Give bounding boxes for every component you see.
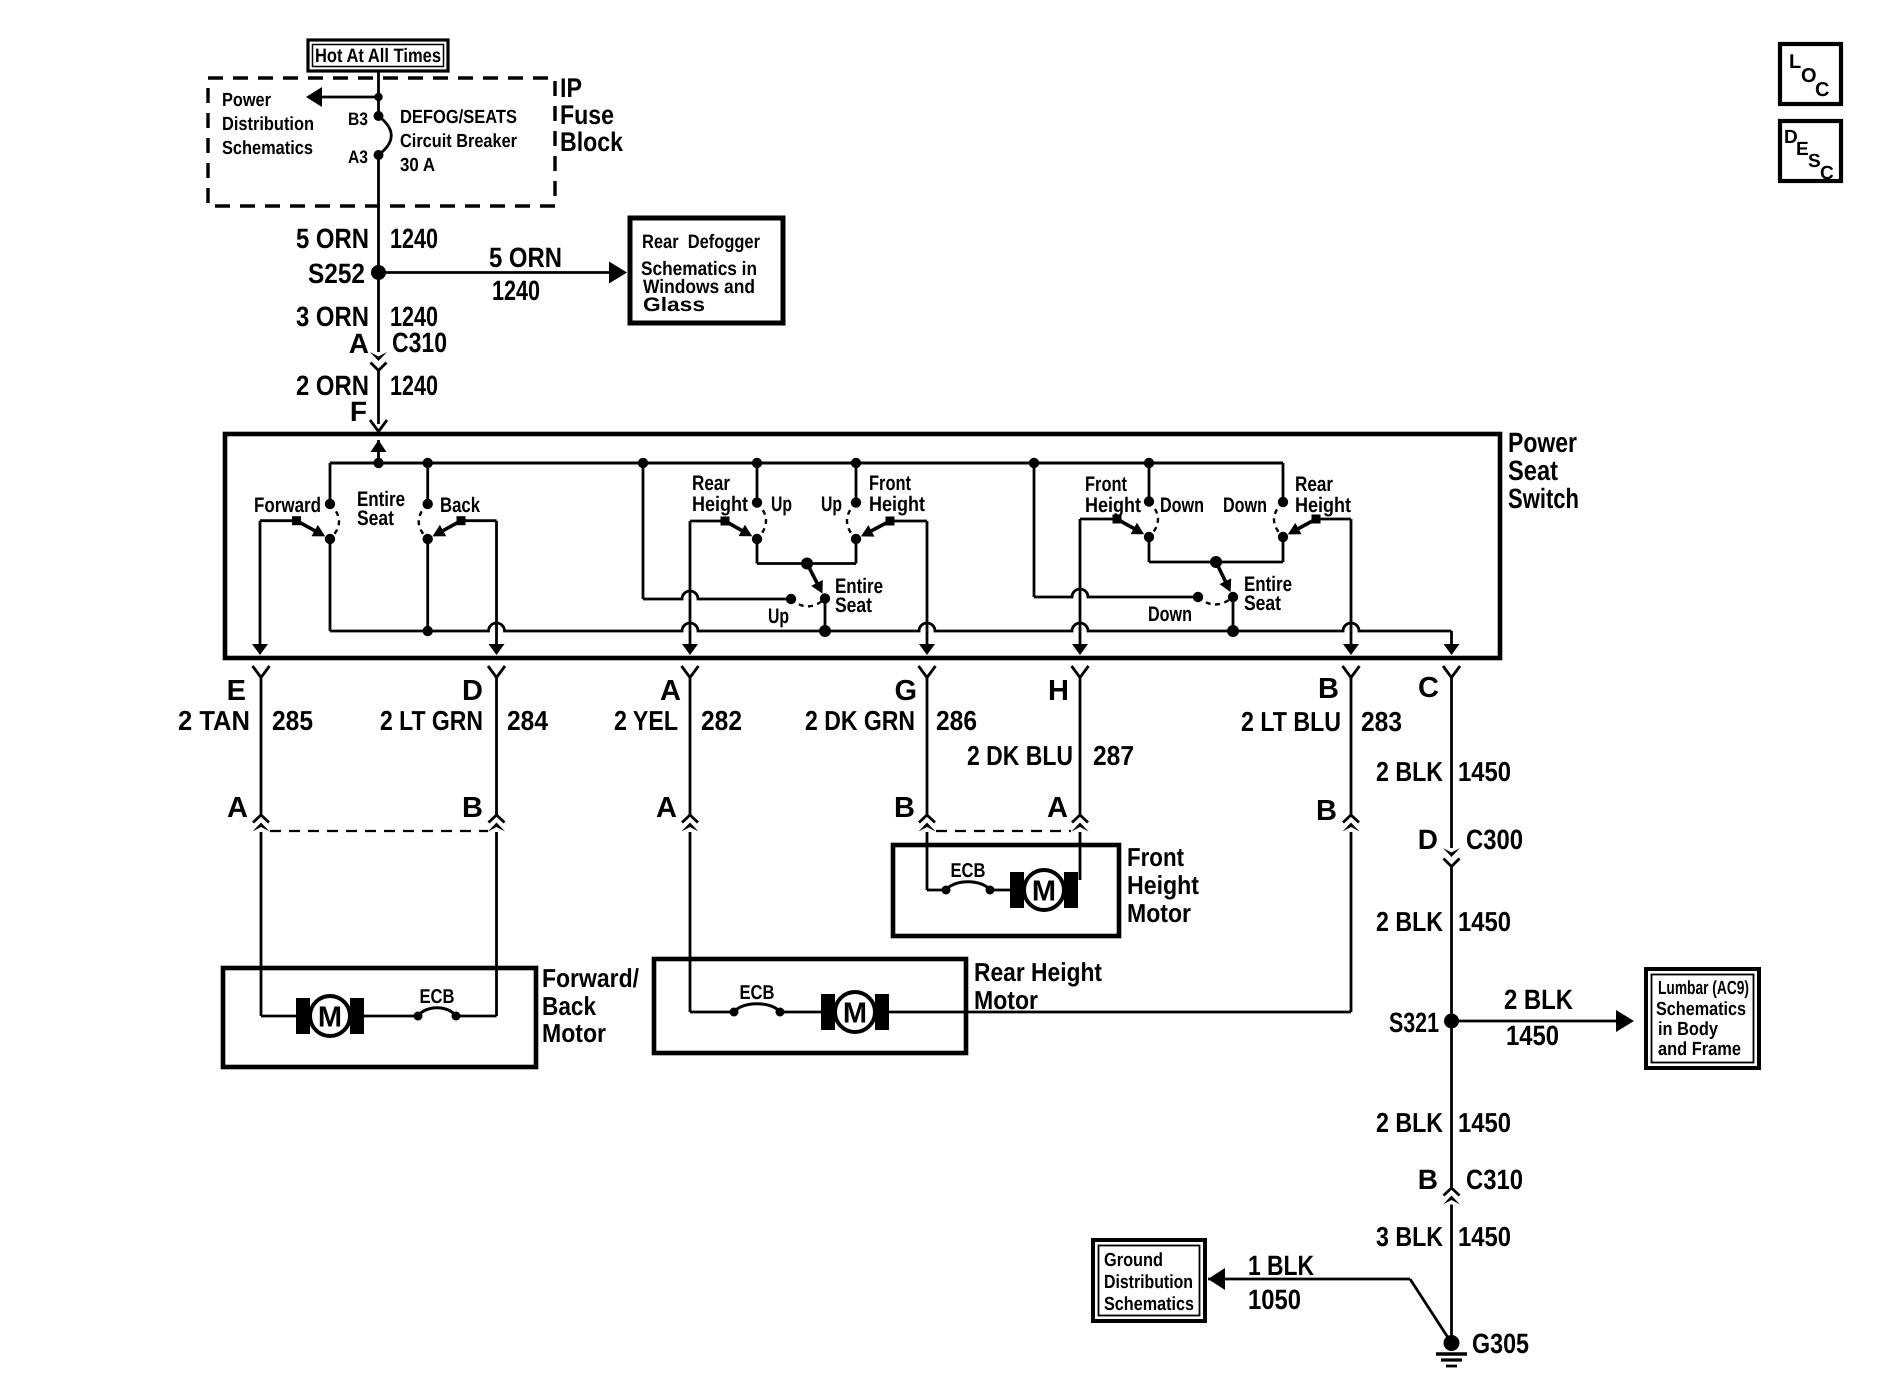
svg-text:Hot At All Times: Hot At All Times: [315, 45, 441, 67]
svg-text:A3: A3: [348, 147, 368, 167]
svg-text:A: A: [349, 328, 369, 359]
svg-text:M: M: [843, 998, 867, 1030]
svg-text:Distribution: Distribution: [222, 114, 314, 135]
svg-text:Height: Height: [1295, 494, 1351, 517]
svg-text:2 LT BLU: 2 LT BLU: [1241, 706, 1341, 737]
svg-text:1050: 1050: [1248, 1284, 1301, 1315]
svg-text:ECB: ECB: [420, 986, 455, 1008]
svg-text:Front: Front: [1127, 842, 1184, 872]
svg-text:2 BLK: 2 BLK: [1376, 906, 1443, 937]
svg-text:Power: Power: [222, 90, 272, 111]
svg-text:284: 284: [507, 705, 549, 736]
svg-text:Schematics: Schematics: [1104, 1294, 1194, 1315]
svg-text:B: B: [462, 792, 483, 824]
svg-text:2 LT GRN: 2 LT GRN: [380, 705, 483, 736]
svg-text:H: H: [1048, 675, 1069, 707]
svg-text:C310: C310: [392, 327, 447, 358]
svg-text:283: 283: [1361, 706, 1402, 737]
svg-text:F: F: [350, 396, 367, 427]
svg-text:ECB: ECB: [740, 982, 775, 1004]
svg-text:Distribution: Distribution: [1104, 1272, 1193, 1293]
svg-text:Lumbar (AC9): Lumbar (AC9): [1658, 978, 1749, 999]
svg-text:in Body: in Body: [1658, 1019, 1718, 1040]
svg-text:G305: G305: [1472, 1328, 1529, 1359]
svg-text:C: C: [1820, 163, 1834, 184]
svg-text:Seat: Seat: [1244, 592, 1281, 615]
svg-text:Schematics: Schematics: [222, 138, 313, 159]
svg-text:2 BLK: 2 BLK: [1376, 756, 1443, 787]
svg-text:2 TAN: 2 TAN: [178, 705, 250, 736]
svg-text:Down: Down: [1160, 494, 1204, 517]
svg-text:Seat: Seat: [1508, 455, 1558, 486]
svg-text:3 BLK: 3 BLK: [1376, 1221, 1443, 1252]
svg-text:287: 287: [1093, 740, 1134, 771]
svg-text:2 YEL: 2 YEL: [614, 705, 678, 736]
svg-text:Seat: Seat: [835, 594, 872, 617]
svg-text:1450: 1450: [1506, 1020, 1559, 1051]
svg-text:1240: 1240: [492, 275, 540, 306]
svg-text:30 A: 30 A: [400, 155, 435, 176]
svg-text:Rear Height: Rear Height: [974, 957, 1102, 987]
svg-text:and Frame: and Frame: [1658, 1039, 1741, 1060]
svg-text:B: B: [1418, 1164, 1438, 1195]
svg-text:M: M: [1032, 876, 1056, 908]
svg-text:S321: S321: [1389, 1007, 1439, 1038]
svg-text:1450: 1450: [1458, 1107, 1511, 1138]
svg-text:Height: Height: [1127, 870, 1199, 900]
svg-text:IP: IP: [560, 73, 582, 103]
svg-text:Motor: Motor: [542, 1018, 606, 1048]
svg-text:C: C: [1815, 79, 1829, 101]
svg-text:Height: Height: [1085, 494, 1141, 517]
svg-text:Fuse: Fuse: [560, 100, 614, 130]
svg-text:A: A: [227, 792, 248, 824]
svg-text:S252: S252: [308, 258, 365, 289]
svg-text:1240: 1240: [390, 370, 438, 401]
svg-text:D: D: [1418, 824, 1438, 855]
svg-text:B3: B3: [348, 109, 368, 129]
svg-text:Up: Up: [771, 493, 792, 516]
svg-text:2 DK GRN: 2 DK GRN: [805, 705, 915, 736]
svg-text:Forward: Forward: [254, 494, 321, 517]
svg-text:G: G: [894, 675, 917, 707]
svg-text:Motor: Motor: [1127, 898, 1191, 928]
svg-text:L: L: [1789, 51, 1801, 73]
svg-text:C: C: [1418, 672, 1439, 704]
svg-text:Seat: Seat: [357, 507, 394, 530]
svg-text:2 BLK: 2 BLK: [1504, 984, 1573, 1015]
svg-text:Forward/: Forward/: [542, 963, 639, 993]
svg-text:Ground: Ground: [1104, 1250, 1163, 1271]
svg-text:Power: Power: [1508, 427, 1577, 458]
svg-text:2 BLK: 2 BLK: [1376, 1107, 1443, 1138]
svg-text:A: A: [660, 675, 681, 707]
svg-text:Block: Block: [560, 127, 624, 157]
svg-text:286: 286: [936, 705, 977, 736]
svg-text:M: M: [318, 1002, 342, 1034]
svg-text:Height: Height: [869, 493, 925, 516]
svg-text:D: D: [462, 675, 483, 707]
svg-text:Up: Up: [821, 493, 842, 516]
svg-text:Down: Down: [1148, 603, 1192, 626]
svg-text:S: S: [1808, 151, 1821, 172]
svg-text:Front: Front: [1085, 473, 1127, 496]
svg-text:Motor: Motor: [974, 985, 1038, 1015]
svg-text:Rear: Rear: [1295, 473, 1333, 496]
svg-text:B: B: [894, 792, 915, 824]
svg-text:B: B: [1316, 795, 1337, 827]
svg-text:Down: Down: [1223, 494, 1267, 517]
svg-text:285: 285: [272, 705, 313, 736]
svg-text:Up: Up: [768, 605, 789, 628]
svg-text:C310: C310: [1466, 1164, 1523, 1195]
svg-text:1 BLK: 1 BLK: [1248, 1250, 1314, 1281]
svg-text:Height: Height: [692, 493, 748, 516]
svg-text:E: E: [227, 675, 246, 707]
svg-text:C300: C300: [1466, 824, 1523, 855]
svg-text:Back: Back: [440, 494, 480, 517]
svg-text:A: A: [656, 792, 677, 824]
svg-text:1450: 1450: [1458, 1221, 1511, 1252]
svg-text:Front: Front: [869, 472, 911, 495]
svg-text:Switch: Switch: [1508, 483, 1579, 514]
svg-text:ECB: ECB: [951, 860, 986, 882]
svg-text:Rear Defogger: Rear Defogger: [642, 231, 760, 253]
svg-text:5 ORN: 5 ORN: [296, 223, 369, 254]
svg-text:Glass: Glass: [643, 294, 705, 316]
svg-text:282: 282: [701, 705, 742, 736]
svg-text:Rear: Rear: [692, 472, 730, 495]
svg-text:2 DK BLU: 2 DK BLU: [967, 740, 1073, 771]
svg-text:1240: 1240: [390, 223, 438, 254]
svg-text:A: A: [1047, 792, 1068, 824]
svg-text:Circuit Breaker: Circuit Breaker: [400, 131, 518, 152]
svg-text:1450: 1450: [1458, 906, 1511, 937]
svg-text:Schematics: Schematics: [1656, 999, 1746, 1020]
svg-text:1450: 1450: [1458, 756, 1511, 787]
svg-text:B: B: [1318, 673, 1339, 705]
svg-text:Back: Back: [542, 991, 596, 1021]
svg-text:DEFOG/SEATS: DEFOG/SEATS: [400, 107, 517, 128]
svg-text:E: E: [1796, 139, 1809, 160]
svg-text:5 ORN: 5 ORN: [489, 242, 562, 273]
